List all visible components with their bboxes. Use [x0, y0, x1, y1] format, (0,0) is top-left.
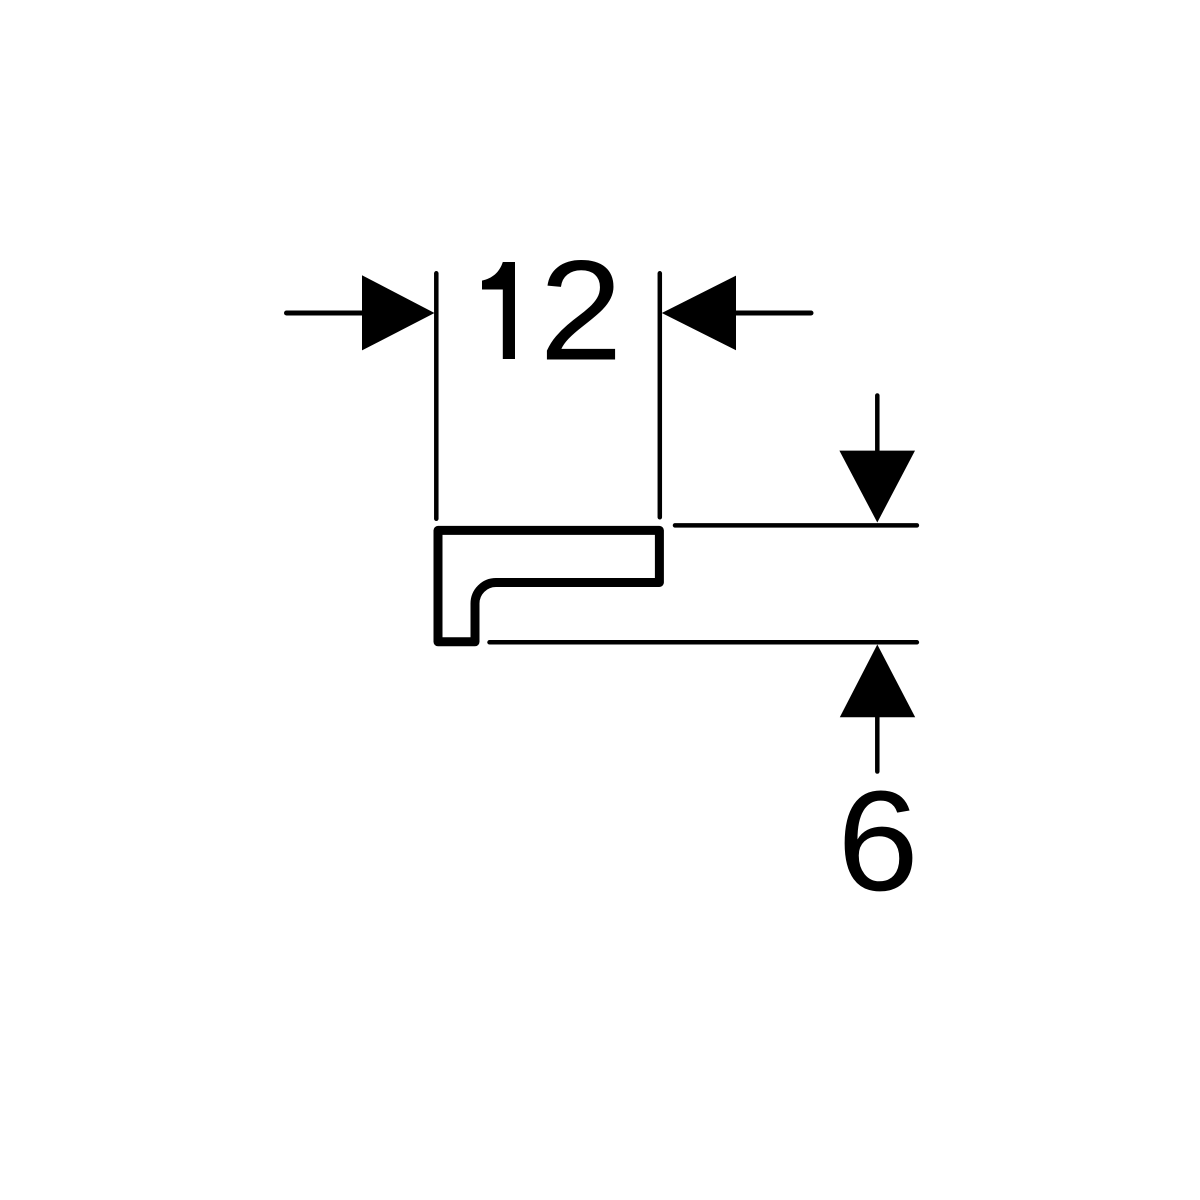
- dimension line left tail (12): [287, 311, 367, 316]
- reference line top (6): [675, 523, 917, 528]
- profile outline (shelf cross-section): [438, 530, 659, 641]
- arrowhead left (12, pointing right): [362, 275, 435, 350]
- extension line left (12): [434, 273, 439, 519]
- svg-text:6: 6: [837, 761, 919, 921]
- label 12 digit 1: [482, 262, 515, 359]
- extension line right (12): [658, 273, 663, 517]
- arrow stem lower (6, pointing up): [875, 717, 880, 771]
- arrowhead right (12, pointing left): [662, 276, 736, 351]
- arrowhead down (6): [839, 451, 915, 523]
- dimension line right tail (12): [736, 311, 811, 316]
- arrowhead up (6): [840, 645, 915, 718]
- reference line bottom (6): [490, 640, 917, 645]
- svg-text:2: 2: [539, 231, 622, 390]
- arrow stem upper (6, pointing down): [875, 396, 880, 451]
